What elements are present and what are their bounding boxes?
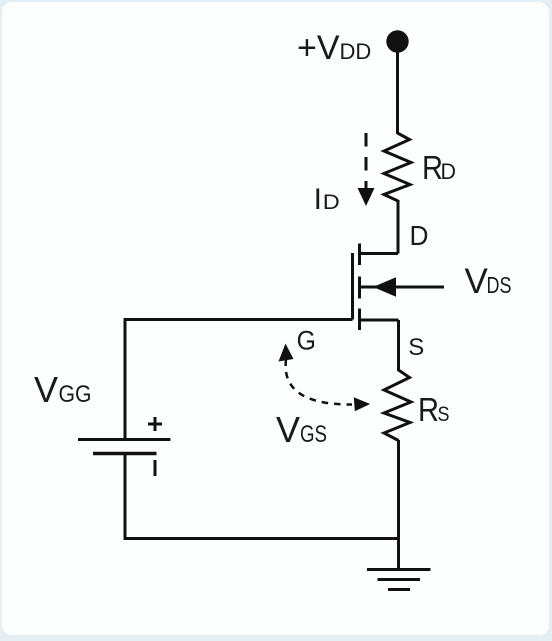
svg-text:G: G: [297, 326, 316, 356]
voltage arrow VGS (dashed arc): [279, 344, 371, 412]
svg-text:R: R: [418, 391, 439, 428]
svg-text:DS: DS: [487, 272, 512, 298]
voltage arrow VDS: [360, 277, 444, 296]
svg-text:V: V: [465, 262, 489, 301]
label VGS: [276, 409, 327, 450]
svg-text:V: V: [276, 409, 300, 450]
svg-text:+VDD: +VDD: [297, 29, 371, 67]
node VDD supply terminal: [386, 30, 408, 52]
wire RS to ground: [397, 440, 400, 570]
wire gate to top-left corner: [125, 318, 353, 321]
svg-text:V: V: [34, 369, 58, 410]
wire left vertical to battery: [124, 318, 127, 440]
battery VGG: [78, 440, 171, 454]
wire RD to drain: [397, 200, 400, 254]
wire source to RS: [397, 320, 400, 371]
svg-text:I: I: [314, 183, 322, 216]
label ID: [314, 183, 340, 216]
label VDS: [465, 262, 512, 301]
ground: [367, 570, 431, 590]
current arrow ID (dashed): [358, 133, 375, 206]
battery minus marker: [154, 460, 157, 476]
svg-text:GG: GG: [59, 381, 92, 408]
svg-text:S: S: [438, 403, 450, 426]
wire VDD node to RD: [396, 48, 399, 134]
wire bottom horizontal: [124, 537, 399, 540]
wire battery to bottom-left corner: [124, 454, 127, 541]
svg-text:S: S: [408, 334, 424, 361]
svg-text:D: D: [410, 220, 429, 251]
svg-text:D: D: [323, 191, 340, 214]
transistor Q1 (n-channel MOSFET): [353, 244, 399, 331]
label RS: [418, 391, 450, 428]
svg-text:D: D: [441, 159, 457, 184]
label VGG: [34, 369, 92, 410]
resistor RD: [384, 133, 411, 201]
resistor RS: [384, 370, 411, 441]
battery plus marker: [148, 417, 162, 431]
label RD: [422, 149, 456, 186]
svg-text:GS: GS: [300, 421, 327, 448]
